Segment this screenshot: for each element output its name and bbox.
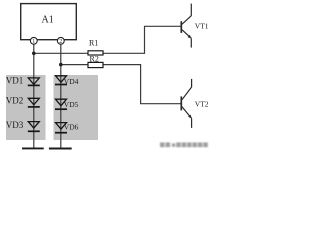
diode VD6 — [55, 123, 67, 133]
svg-text:VD6: VD6 — [64, 122, 79, 131]
terminal 1 — [30, 37, 37, 45]
svg-text:VD3: VD3 — [6, 120, 24, 130]
svg-text:VD1: VD1 — [6, 75, 24, 85]
svg-text:VD2: VD2 — [6, 95, 24, 105]
diode VD3 — [28, 122, 40, 132]
resistor R1 — [88, 51, 103, 55]
module box right (gray) — [54, 75, 99, 140]
diode VD5 — [55, 99, 67, 109]
terminal 2 — [57, 37, 64, 45]
transistor VT1 — [181, 4, 191, 48]
svg-text:VD4: VD4 — [64, 77, 79, 86]
svg-text:A1: A1 — [41, 14, 53, 25]
svg-text:1: 1 — [32, 39, 35, 45]
svg-text:R1: R1 — [89, 39, 98, 48]
resistor R2 — [88, 62, 103, 67]
wire R2 to VT2 base — [103, 65, 181, 104]
svg-text:2: 2 — [59, 39, 62, 45]
junction node on wire 2 — [59, 63, 63, 67]
junction node on wire 1 — [32, 52, 36, 56]
wire node2 to R2 — [61, 64, 88, 66]
terminal bar right chain — [49, 148, 72, 150]
terminal bar left chain — [22, 147, 44, 149]
watermark blocks — [160, 142, 208, 147]
svg-text:VT2: VT2 — [195, 100, 209, 109]
svg-text:VD5: VD5 — [64, 100, 79, 109]
svg-text:R2: R2 — [90, 55, 99, 64]
diode VD2 — [28, 98, 40, 107]
wire from terminal 1 down to diode chain — [33, 43, 35, 147]
wire from terminal 2 down to diode chain — [60, 43, 62, 147]
diode VD1 — [28, 78, 40, 86]
wire node1 to R1 — [34, 52, 88, 54]
wire R1 to VT1 base — [103, 26, 181, 53]
diode VD4 — [55, 76, 67, 85]
box A1 — [21, 4, 77, 40]
module box left (gray) — [6, 75, 46, 140]
svg-text:VT1: VT1 — [195, 21, 209, 30]
transistor VT2 — [181, 79, 191, 128]
